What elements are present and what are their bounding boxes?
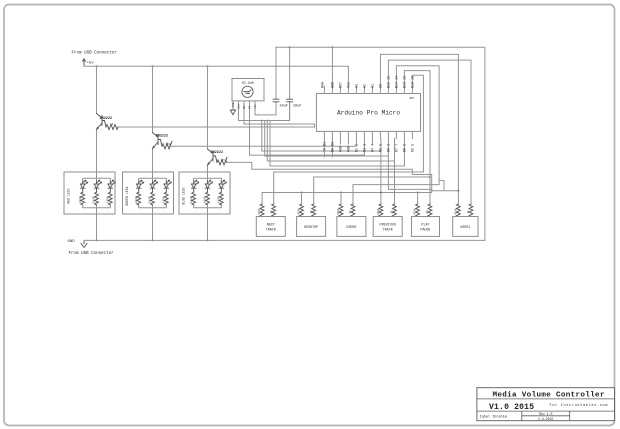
wire red LED chain vertical [96, 66, 98, 240]
svg-text:+5v: +5v [87, 61, 95, 65]
svg-text:2N2222: 2N2222 [100, 117, 113, 121]
LED D5 [149, 180, 158, 205]
button PLAY PAUSE [412, 204, 440, 236]
svg-text:100R: 100R [79, 196, 82, 203]
svg-text:DESKTOP: DESKTOP [304, 226, 318, 230]
svg-text:Rev 1.0: Rev 1.0 [539, 412, 552, 416]
svg-text:PAUSE: PAUSE [420, 229, 430, 233]
LED box BLUE LEDs [179, 172, 230, 214]
svg-text:PLAY: PLAY [421, 224, 429, 228]
svg-text:100R: 100R [162, 196, 165, 203]
wire bundle line3 D8 [267, 121, 394, 205]
svg-text:100R: 100R [106, 196, 109, 203]
svg-text:GREEN LEDs: GREEN LEDs [125, 186, 129, 205]
button NEXT TRACK [256, 204, 285, 236]
svg-text:RED LEDs: RED LEDs [67, 188, 71, 203]
svg-text:A2: A2 [363, 84, 367, 88]
wire +5v rail [84, 65, 348, 86]
svg-text:GND: GND [347, 146, 351, 152]
svg-text:470k: 470k [413, 208, 417, 215]
wire Q3 base staircase to feed [227, 162, 458, 190]
LED D2 [93, 180, 102, 205]
svg-text:D10 10: D10 10 [411, 76, 415, 88]
wire encoder pin DT to Arduino pin D4 [250, 107, 365, 156]
svg-text:GND: GND [331, 82, 335, 88]
button USER1 [453, 204, 478, 236]
svg-text:V1.0 2015: V1.0 2015 [489, 403, 534, 412]
svg-text:470k: 470k [376, 208, 380, 215]
svg-text:CLK: CLK [238, 104, 241, 109]
svg-text:1k: 1k [309, 210, 313, 214]
wire blue LED chain vertical [207, 66, 209, 240]
svg-text:D14 14: D14 14 [395, 76, 399, 88]
svg-text:10uF: 10uF [279, 104, 288, 108]
svg-text:A1: A1 [371, 84, 375, 88]
svg-text:TRACK: TRACK [383, 229, 394, 233]
svg-text:A0: A0 [379, 84, 383, 88]
svg-text:D6 6: D6 6 [387, 144, 391, 152]
svg-text:RST: RST [339, 82, 343, 88]
svg-text:USER1: USER1 [460, 226, 470, 230]
svg-text:100R: 100R [217, 196, 220, 203]
wire bundle line2 D7 [265, 121, 432, 190]
svg-text:Iqbal Ibrahim: Iqbal Ibrahim [480, 415, 507, 420]
svg-text:D9 9: D9 9 [411, 144, 415, 152]
ground encoder [230, 110, 235, 115]
svg-text:Arduino Pro Micro: Arduino Pro Micro [337, 110, 400, 117]
wire Q1 base to encoder pin3 [118, 107, 315, 128]
wire GND rail [84, 239, 485, 241]
svg-text:D15 15: D15 15 [387, 76, 391, 88]
svg-text:470k: 470k [297, 208, 301, 215]
svg-text:100R: 100R [135, 196, 138, 203]
svg-text:D7 7: D7 7 [395, 144, 399, 152]
svg-text:470k: 470k [454, 208, 458, 215]
transistor Q3 2N2222 [208, 149, 228, 165]
svg-text:NEXT: NEXT [267, 224, 275, 228]
wire loop E pin D10 to NEXT TRACK [274, 75, 424, 204]
svg-text:uPM: uPM [409, 97, 414, 100]
wire green LED chain vertical [152, 66, 154, 240]
LED D3 [106, 180, 115, 205]
svg-text:D16 16: D16 16 [403, 76, 407, 88]
svg-text:1k: 1k [221, 157, 225, 161]
button USER0 [336, 204, 366, 236]
svg-text:VCC: VCC [347, 82, 351, 88]
wire loop A pin A0 to button feed [380, 54, 459, 204]
rotary encoder U2 [232, 79, 264, 111]
svg-text:D4 4: D4 4 [371, 144, 375, 152]
svg-text:For Instructables.com: For Instructables.com [550, 403, 609, 408]
svg-text:100R: 100R [204, 196, 207, 203]
Arduino top pin labels [321, 76, 415, 88]
svg-text:D5 5: D5 5 [379, 144, 383, 152]
wire bundle line1 D6 [262, 121, 381, 205]
svg-text:1k: 1k [390, 210, 394, 214]
svg-text:1k: 1k [166, 141, 170, 145]
svg-text:100R: 100R [149, 196, 152, 203]
svg-text:PREVIOUS: PREVIOUS [380, 224, 396, 228]
transistor Q1 2N2222 [97, 114, 119, 130]
wire loop C pin D14 to USER0 [353, 66, 439, 204]
svg-text:A3: A3 [355, 84, 359, 88]
svg-text:1k: 1k [348, 210, 352, 214]
svg-text:1-4-2015: 1-4-2015 [538, 417, 553, 421]
svg-text:From USB Connector: From USB Connector [69, 252, 115, 256]
LED box GREEN LEDs [123, 172, 174, 214]
LED D7 [190, 180, 199, 205]
svg-text:USER0: USER0 [346, 226, 356, 230]
svg-text:DT: DT [249, 105, 252, 109]
wire loop B pin D15 to USER1 [388, 60, 471, 204]
svg-text:From USB Connector: From USB Connector [72, 52, 118, 56]
svg-text:+5v: +5v [254, 104, 257, 109]
svg-text:KY-040: KY-040 [242, 81, 254, 85]
svg-text:RX D0: RX D0 [331, 142, 335, 152]
LED D1 [79, 180, 88, 205]
button PREVIOUS TRACK [373, 204, 402, 236]
transistor Q2 2N2222 [153, 133, 173, 149]
wire Arduino bottom pin stubs [324, 131, 412, 138]
svg-text:TX D1: TX D1 [323, 142, 327, 152]
svg-text:D8 8: D8 8 [403, 144, 407, 152]
wire bundle line4 D9 [270, 121, 404, 167]
LED D6 [162, 180, 171, 205]
wire button feed line [262, 191, 432, 204]
svg-text:2N2222: 2N2222 [211, 151, 224, 155]
svg-text:100R: 100R [93, 196, 96, 203]
wire loop D pin D16 to DESKTOP and PLAY PAUSE [314, 71, 431, 204]
svg-text:1k: 1k [110, 122, 114, 126]
svg-text:470k: 470k [336, 208, 340, 215]
svg-text:D2 2: D2 2 [355, 144, 359, 152]
LED box RED LEDs [64, 172, 115, 214]
svg-text:10uF: 10uF [293, 104, 302, 108]
svg-text:470k: 470k [257, 208, 261, 215]
svg-text:1k: 1k [269, 210, 273, 214]
svg-text:RAW: RAW [321, 81, 325, 88]
svg-text:1k: 1k [466, 210, 470, 214]
svg-text:SW: SW [243, 105, 246, 109]
svg-text:TRACK: TRACK [266, 229, 277, 233]
wire Q2 base to Arduino pin D3 [170, 139, 356, 147]
node +5v from USB [72, 52, 118, 67]
wire encoder pin CLK jog [239, 102, 290, 122]
wire GND top line [276, 46, 485, 240]
svg-text:GND: GND [339, 146, 343, 152]
node GND from USB [68, 240, 115, 256]
svg-text:2N2222: 2N2222 [156, 134, 169, 138]
capacitor C2 [287, 47, 302, 120]
svg-text:GND: GND [68, 240, 76, 244]
title block [477, 388, 615, 421]
IC U1 Arduino Pro Micro [316, 94, 420, 132]
wire Arduino top pin stubs [324, 87, 412, 94]
LED D9 [217, 180, 226, 205]
wire dogleg D14 spur [439, 181, 444, 190]
LED D4 [135, 180, 144, 205]
svg-text:D3 3: D3 3 [363, 144, 367, 152]
LED D8 [204, 180, 213, 205]
svg-text:GND: GND [232, 102, 235, 107]
svg-text:100R: 100R [190, 196, 193, 203]
svg-text:BLUE LEDs: BLUE LEDs [182, 187, 186, 204]
wire Arduino bottom stub pins [324, 139, 372, 158]
wire encoder +5v to cap [255, 102, 276, 115]
Arduino bottom pin labels [323, 142, 415, 152]
button DESKTOP [297, 204, 326, 236]
capacitor C1 [273, 47, 288, 115]
svg-text:1k: 1k [425, 210, 429, 214]
svg-text:Media Volume Controller: Media Volume Controller [493, 392, 605, 400]
